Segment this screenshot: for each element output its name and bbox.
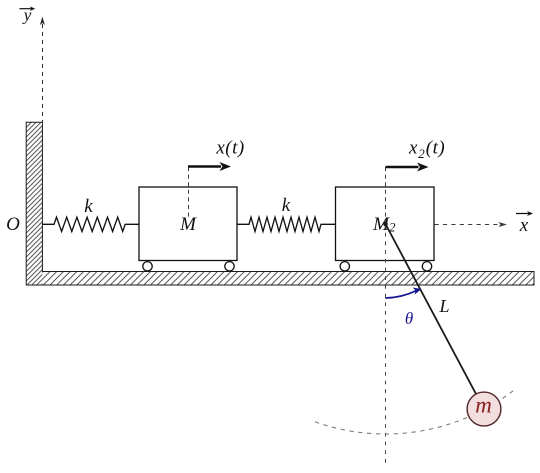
x-axis dashed line: [435, 224, 501, 226]
svg-text:θ: θ: [405, 309, 413, 328]
dashed reference line x2(t) upper: [385, 167, 387, 224]
svg-text:x2(t): x2(t): [408, 138, 445, 162]
svg-text:x(t): x(t): [215, 138, 244, 159]
svg-text:O: O: [6, 214, 20, 235]
y-axis arrowhead: [40, 17, 45, 26]
swing path dashed arc: [315, 390, 515, 434]
wheel cart1 left: [143, 262, 152, 271]
x-axis arrowhead: [499, 222, 508, 227]
dashed vertical line below pivot: [385, 224, 387, 466]
theta arc (blue): [385, 291, 416, 299]
label vec x: [516, 211, 533, 236]
y-axis dashed line: [42, 24, 44, 122]
svg-text:M: M: [179, 214, 197, 235]
svg-text:k: k: [84, 196, 93, 217]
arrow x(t): [188, 165, 221, 168]
spring k2 (between carts): [237, 217, 335, 231]
svg-text:m: m: [475, 393, 492, 418]
svg-text:L: L: [438, 296, 449, 316]
pendulum rod L: [386, 224, 485, 409]
spring k1 (wall to mass M): [43, 217, 140, 231]
pivot dot: [383, 222, 388, 227]
wheel cart1 right: [225, 262, 234, 271]
mass M (cart 1 body): [139, 187, 237, 261]
mass M2 (cart 2 body): [336, 187, 435, 261]
arrow x2(t): [386, 166, 419, 169]
wheel cart2 left: [340, 262, 349, 271]
wheel cart2 right: [422, 262, 431, 271]
floor (hatched band): [42, 272, 534, 286]
label vec y: [20, 6, 36, 25]
mass m (pendulum bob): [467, 392, 501, 426]
wall (hatched, fine): [26, 122, 42, 285]
dashed reference line x(t): [188, 167, 190, 217]
svg-text:k: k: [282, 195, 291, 216]
wall+floor outline: [26, 122, 534, 285]
svg-text:x: x: [519, 215, 529, 236]
